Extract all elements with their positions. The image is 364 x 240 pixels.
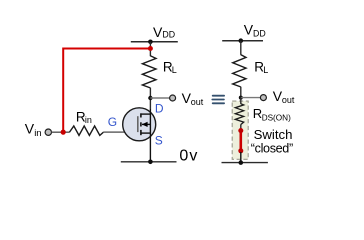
wire Vout tap left — [150, 97, 169, 99]
wire node to RDS resistor — [240, 98, 242, 104]
node red contact dot bottom — [238, 148, 243, 153]
node red junction on VDD rail — [148, 46, 153, 51]
resistor RL left — [142, 56, 156, 88]
label VDD right — [244, 22, 266, 39]
label G gate — [108, 115, 117, 129]
VDD supply bar right — [222, 40, 263, 42]
label VDD left — [153, 24, 175, 40]
transistor Q1 body stub with arrow — [142, 122, 151, 127]
svg-text:V: V — [25, 121, 35, 137]
label RL left — [163, 59, 177, 74]
terminal Vin — [45, 129, 51, 135]
label RDS(ON) — [253, 106, 291, 122]
ground rail left 0v — [121, 161, 177, 163]
label Vin — [25, 121, 42, 140]
svg-text:0v: 0v — [179, 148, 198, 165]
label Vout right — [273, 88, 295, 105]
label Switch closed — [251, 127, 293, 155]
svg-text:S: S — [155, 134, 163, 148]
node junction dot ground right — [239, 160, 244, 165]
wire switch to ground right — [240, 152, 242, 163]
node junction dot Vout left — [148, 96, 152, 100]
svg-text:DS(ON): DS(ON) — [262, 113, 291, 122]
transistor Q1 MOSFET body circle — [123, 108, 156, 141]
wire RL bottom to Vout node left — [149, 88, 151, 109]
node junction dot ground left — [148, 160, 153, 165]
transistor Q1 source stub — [142, 132, 151, 134]
label S source — [155, 134, 163, 148]
svg-text:G: G — [108, 115, 117, 129]
svg-text:out: out — [282, 95, 295, 105]
label Rin — [76, 109, 92, 125]
svg-text:L: L — [172, 65, 177, 75]
switch equivalent dashed highlight box — [232, 101, 248, 159]
svg-text:D: D — [155, 102, 164, 116]
VDD supply bar left — [131, 41, 178, 43]
wire Vout tap right — [241, 97, 261, 99]
terminal Vout right — [260, 95, 266, 101]
terminal Vout left — [170, 95, 176, 101]
resistor Rin — [70, 126, 104, 135]
label D drain — [155, 102, 164, 116]
node junction dot Vout right — [239, 96, 243, 100]
svg-text:DD: DD — [162, 30, 175, 40]
node red junction at Vin wire — [61, 130, 66, 135]
svg-text:Switch: Switch — [254, 127, 293, 142]
resistor RL right — [233, 55, 246, 87]
svg-text:DD: DD — [253, 28, 266, 38]
transistor Q1 drain stub — [142, 113, 151, 115]
wire RL bottom to Vout node right — [240, 87, 242, 98]
wire Rin to gate — [103, 131, 138, 133]
node junction dot VDD right — [239, 38, 244, 43]
wire VDD bar to resistor RL right — [240, 41, 242, 55]
label 0v — [179, 148, 198, 165]
wire Vin to Rin — [52, 131, 70, 133]
wire drain-source vertical through Q1 — [149, 109, 151, 162]
wire VDD bar to resistor RL left — [149, 42, 151, 56]
transistor Q1 channel segments — [140, 113, 142, 135]
svg-text:L: L — [263, 65, 268, 75]
svg-text:in: in — [85, 115, 92, 125]
svg-text:in: in — [34, 128, 41, 139]
label Vout left — [182, 90, 204, 107]
resistor RDS(ON) — [235, 104, 243, 125]
node red contact dot top — [238, 128, 243, 133]
equivalence symbol — [211, 95, 225, 104]
svg-text:out: out — [191, 97, 204, 107]
ground rail right — [222, 162, 268, 164]
svg-text:“closed”: “closed” — [251, 141, 293, 155]
wire red feedback from VDD rail to input node — [63, 49, 150, 133]
label RL right — [254, 59, 268, 74]
wire closed-switch red segment — [240, 125, 242, 153]
node junction dot VDD left — [148, 40, 153, 45]
transistor Q1 gate bar — [137, 116, 139, 132]
